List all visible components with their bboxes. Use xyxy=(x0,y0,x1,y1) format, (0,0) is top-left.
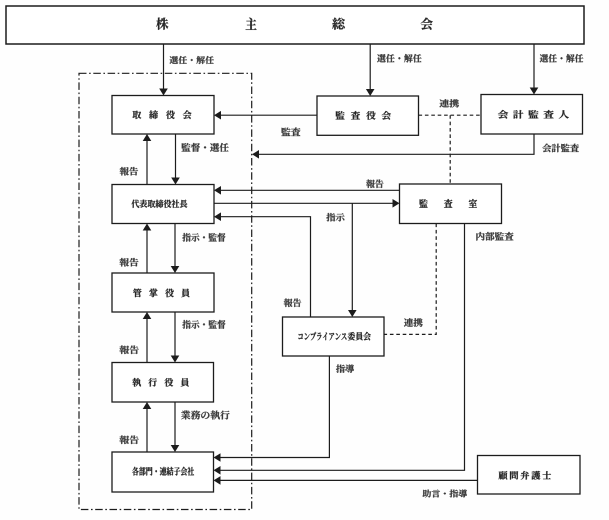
arrow: 執行役員 → 管掌役員 (報告) xyxy=(120,312,152,363)
box: 顧問弁護士 (Corporate Lawyer) xyxy=(478,456,581,495)
arrow: 監査室 → 代表取締役社長 (報告) xyxy=(214,180,400,195)
box: 取締役会 (Board of Directors) xyxy=(112,96,214,135)
box: 各部門・連結子会社 (Departments / Consolidated Subsidiaries) xyxy=(112,452,214,492)
arrow: 代表取締役社長 → 管掌役員 (指示・監督) xyxy=(171,224,226,274)
arrow: 顧問弁護士 → 各部門・連結子会社 (助言・指導) xyxy=(214,476,478,497)
dashed link: 監査室 ↔ コンプライアンス委員会 (連携) xyxy=(384,224,436,335)
box: 管掌役員 (Supervising Officers) xyxy=(112,273,214,312)
arrow: 代表取締役社長 → 監査室 (指示) xyxy=(214,199,400,222)
dashed link: 監査役会 ↔ 会計監査人 (連携) xyxy=(419,99,482,115)
arrow: コンプライアンス委員会 → 代表取締役社長 (報告) xyxy=(214,212,311,317)
arrow: 管掌役員 → 執行役員 (指示・監督) xyxy=(171,312,226,363)
group frame (dash-dot) around internal organization xyxy=(79,73,252,509)
arrow: 指示 branch down to コンプライアンス委員会 xyxy=(348,203,357,317)
dashed link: 連携 line down to 監査室 xyxy=(449,115,451,184)
arrow: 株主総会 → 取締役会 (選任・解任) xyxy=(159,44,214,96)
arrow: 管掌役員 → 代表取締役社長 (報告) xyxy=(120,224,152,274)
box: 監査役会 (Board of Corporate Auditors) xyxy=(317,96,419,135)
box: 監査室 (Audit Office) xyxy=(400,184,502,224)
box: 代表取締役社長 (President & Representative Director) xyxy=(112,185,214,224)
arrow: 会計監査人 → 会社グループ (会計監査) xyxy=(252,134,579,159)
arrow: 株主総会 → 会計監査人 (選任・解任) xyxy=(530,44,584,95)
arrow: 監査室 → 各部門・連結子会社 (内部監査) xyxy=(214,224,514,475)
arrow: 各部門・連結子会社 → 執行役員 (報告) xyxy=(120,402,152,452)
arrow: 監査役会 → 取締役会 (監査) xyxy=(214,111,317,136)
box: 株主総会 (General Meeting of Shareholders) xyxy=(6,6,584,44)
arrow: コンプライアンス委員会 → 各部門・連結子会社 (指導) xyxy=(214,356,355,462)
arrow: 執行役員 → 各部門・連結子会社 (業務の執行) xyxy=(171,402,230,452)
box: コンプライアンス委員会 (Compliance Committee) xyxy=(283,317,385,356)
box: 会計監査人 (Accounting Auditor) xyxy=(481,95,583,135)
arrow: 株主総会 → 監査役会 (選任・解任) xyxy=(366,44,422,96)
arrow: 取締役会 → 代表取締役社長 (監督・選任) xyxy=(171,134,229,185)
arrow: 代表取締役社長 → 取締役会 (報告) xyxy=(120,134,152,185)
box: 執行役員 (Executive Officers) xyxy=(112,363,214,403)
